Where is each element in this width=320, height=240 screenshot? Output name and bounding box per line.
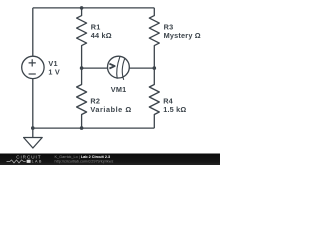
- wire middle right (voltmeter to node B): [129, 67, 154, 69]
- VM1 needle >: [109, 64, 114, 69]
- svg-text:Variable Ω: Variable Ω: [90, 105, 131, 114]
- junction top node: [80, 6, 84, 10]
- svg-text:LAB: LAB: [32, 160, 43, 164]
- svg-text:VM1: VM1: [111, 85, 127, 94]
- resistor R2: [77, 68, 87, 128]
- VM1 scale arc inner: [117, 57, 120, 79]
- voltage source V1 body: [22, 56, 44, 78]
- wire middle left (node A to voltmeter): [82, 67, 108, 69]
- svg-text:1.5 kΩ: 1.5 kΩ: [163, 105, 186, 114]
- V1 plus sign: [29, 59, 36, 66]
- ground stub: [32, 128, 34, 137]
- VM1 scale arc outer: [122, 58, 125, 80]
- svg-text:CIRCUIT: CIRCUIT: [16, 154, 41, 159]
- V1 minus sign: [29, 73, 36, 75]
- CircuitLab logo zigzag: [7, 160, 26, 163]
- wire left rail upper: [32, 8, 34, 56]
- junction bottom left node: [80, 126, 84, 130]
- wire top rail: [33, 7, 155, 9]
- svg-text:K_Garrick_Lo | Lab 2 Circuit 2: K_Garrick_Lo | Lab 2 Circuit 2.3: [55, 155, 111, 159]
- svg-text:1 V: 1 V: [48, 68, 60, 77]
- svg-text:Mystery Ω: Mystery Ω: [164, 31, 201, 40]
- junction ground node: [31, 126, 35, 130]
- resistor R3: [149, 8, 159, 68]
- resistor R4: [149, 68, 159, 128]
- wire left rail lower: [32, 79, 34, 129]
- wire bottom rail: [33, 127, 155, 129]
- voltmeter VM1 body: [108, 56, 130, 78]
- resistor R1: [77, 8, 87, 68]
- ground symbol: [24, 138, 43, 149]
- CircuitLab logo chip square: [27, 160, 31, 163]
- junction node B: [153, 66, 157, 70]
- junction node A: [80, 66, 84, 70]
- svg-text:http://circuitlab.com/c/2979/l: http://circuitlab.com/c/2979/lqr/lkwz: [55, 160, 114, 164]
- svg-text:44 kΩ: 44 kΩ: [91, 31, 112, 40]
